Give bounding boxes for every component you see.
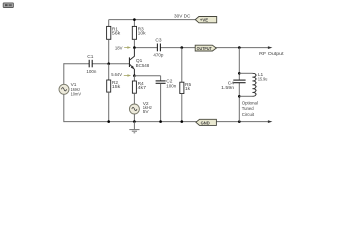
resistor R4 4k7 — [132, 76, 146, 104]
node: L branch bottom — [238, 95, 241, 98]
bottom ground rail — [64, 121, 269, 123]
wire: emitter to C2 — [134, 75, 160, 77]
svg-text:1.59n: 1.59n — [221, 85, 234, 91]
node: tuned circuit to rail junction — [238, 120, 241, 123]
resistor R3 10k — [132, 20, 146, 48]
watermark badge top-left — [3, 3, 13, 8]
svg-text:56k: 56k — [112, 31, 121, 37]
GND badge — [196, 119, 217, 125]
svg-text:5.64V: 5.64V — [111, 72, 122, 78]
transistor Q1 BC548 — [129, 48, 150, 76]
svg-text:15k: 15k — [112, 84, 121, 90]
inductor L1 15.9u — [239, 72, 267, 96]
svg-text:1k: 1k — [185, 86, 191, 92]
svg-text:30V DC: 30V DC — [174, 13, 191, 19]
svg-text:RF Output: RF Output — [259, 51, 284, 57]
svg-text:OUTPUT: OUTPUT — [197, 46, 212, 51]
capacitor C3 470p — [153, 37, 163, 58]
svg-text:+VE: +VE — [200, 18, 208, 23]
svg-text:C1: C1 — [87, 54, 93, 60]
node: C2 to rail junction — [159, 120, 162, 123]
wire: input loop left lower segment — [63, 94, 65, 122]
node: collector junction — [133, 46, 136, 49]
node: top rail junction — [133, 18, 136, 21]
5.64V measurement arrow — [111, 72, 131, 78]
OUTPUT badge — [195, 45, 216, 51]
svg-text:470p: 470p — [153, 52, 163, 58]
svg-text:15.9u: 15.9u — [258, 77, 268, 83]
svg-text:18V: 18V — [115, 45, 123, 51]
tuned circuit vertical wire — [238, 48, 240, 80]
18V measurement arrow — [115, 45, 131, 51]
resistor R1 56k — [107, 20, 121, 64]
+VE badge — [195, 17, 216, 23]
node: R2 to rail junction — [107, 120, 110, 123]
wire: input row / base wire — [64, 63, 89, 65]
wire: input loop left upper segment — [63, 63, 65, 84]
node: R5 tap — [181, 46, 184, 49]
resistor R5 1k — [180, 48, 192, 122]
svg-text:Optional: Optional — [242, 100, 258, 106]
source V1 1MHz 10mV — [59, 82, 82, 97]
node: R5 to rail junction — [181, 120, 184, 123]
node: emitter junction — [133, 74, 136, 77]
wire: V2 to ground rail — [133, 114, 135, 122]
node: L branch top — [238, 72, 241, 75]
capacitor C2 100n — [156, 76, 177, 122]
svg-text:10mV: 10mV — [71, 91, 82, 97]
ground symbol — [129, 122, 139, 133]
capacitor C1 100n — [86, 54, 96, 75]
Optional Tuned Circuit label — [242, 100, 258, 118]
svg-text:Circuit: Circuit — [242, 112, 255, 118]
svg-text:C3: C3 — [155, 37, 161, 43]
node: V2/ground rail junction — [133, 120, 136, 123]
svg-text:Tuned: Tuned — [242, 106, 254, 112]
svg-text:5V: 5V — [143, 109, 150, 115]
node: tuned circuit tap — [238, 46, 241, 49]
svg-text:C2: C2 — [166, 78, 172, 84]
source V2 1kHz 5V — [129, 101, 152, 115]
RF Output arrow — [268, 46, 273, 49]
svg-text:4k7: 4k7 — [138, 85, 147, 91]
svg-text:GND: GND — [201, 120, 211, 125]
svg-text:10k: 10k — [138, 31, 147, 37]
capacitor C4 1.59n — [221, 80, 246, 91]
node: base junction — [107, 62, 110, 65]
top rail wire (30V DC) — [109, 19, 196, 21]
svg-text:100n: 100n — [86, 69, 96, 75]
svg-text:BC548: BC548 — [136, 63, 150, 69]
rail end arrow — [268, 120, 273, 123]
resistor R2 15k — [107, 64, 121, 122]
wire: collector/output row — [134, 47, 157, 49]
svg-text:100n: 100n — [166, 84, 176, 90]
